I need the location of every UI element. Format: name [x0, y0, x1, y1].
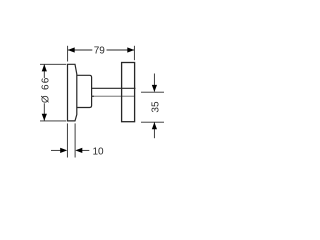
- dim 10 left arrowhead (points right): [60, 148, 67, 153]
- dim 35 top extension line: [141, 91, 164, 93]
- stem bottom line dark start tick: [92, 95, 94, 97]
- dim 79 right arrowhead: [127, 47, 134, 52]
- handle cylinder (side view block): [77, 75, 92, 107]
- dim 10 right arrowhead (points left): [75, 148, 82, 153]
- stem top line: [92, 87, 136, 89]
- dim 10 right extension line: [74, 123, 76, 157]
- dim 79 left arrowhead: [68, 47, 75, 52]
- stem bottom line (gray): [92, 95, 135, 97]
- dim Ø66 line upper segment: [43, 65, 45, 78]
- dim Ø66 bottom arrowhead: [42, 114, 47, 121]
- svg-text:35: 35: [151, 101, 162, 113]
- dim 79 line left segment: [68, 49, 92, 51]
- dim 10 left extension line: [66, 123, 68, 157]
- dim 79 left extension line: [67, 46, 69, 62]
- dim Ø66 top extension line: [40, 63, 66, 65]
- dim Ø66 bottom extension line: [40, 120, 66, 122]
- svg-text:Ø 66: Ø 66: [41, 77, 52, 103]
- dim 79 line right segment: [107, 49, 135, 51]
- dim 35 upper leader line: [153, 74, 155, 92]
- dim 35 bottom extension line: [141, 121, 164, 123]
- svg-text:79: 79: [94, 46, 106, 57]
- dim 35 bottom arrowhead (points up): [152, 122, 157, 129]
- dim 10 left tail line: [51, 149, 62, 151]
- dim 79 right extension line: [133, 46, 135, 60]
- dim 35 lower leader line: [153, 122, 155, 138]
- dim Ø66 line lower segment: [43, 103, 45, 120]
- dim 35 top arrowhead (points down): [152, 85, 157, 92]
- knob rosette body (side view, cone): [68, 64, 77, 121]
- svg-text:10: 10: [92, 147, 104, 158]
- dim 10 right tail line: [81, 149, 90, 151]
- dim Ø66 top arrowhead: [42, 64, 47, 71]
- wall plate (edge view rectangle): [122, 63, 135, 122]
